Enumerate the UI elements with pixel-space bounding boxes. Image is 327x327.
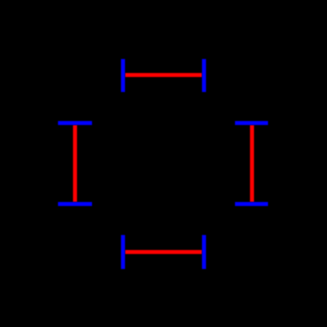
errorbar bottom: right blue cap bbox=[202, 235, 206, 269]
errorbar bottom: left blue cap bbox=[121, 235, 125, 269]
errorbar left: bottom blue cap bbox=[58, 202, 92, 206]
errorbar bottom: red horizontal bar bbox=[125, 250, 202, 254]
errorbar top: left blue cap bbox=[121, 59, 125, 92]
errorbar left: red vertical bar bbox=[73, 125, 77, 202]
errorbar top: red horizontal bar bbox=[125, 73, 202, 77]
errorbar right: bottom blue cap bbox=[235, 202, 268, 206]
errorbar left: top blue cap bbox=[58, 121, 92, 125]
errorbar right: red vertical bar bbox=[250, 125, 254, 202]
errorbar top: right blue cap bbox=[202, 59, 206, 92]
errorbar right: top blue cap bbox=[235, 121, 268, 125]
